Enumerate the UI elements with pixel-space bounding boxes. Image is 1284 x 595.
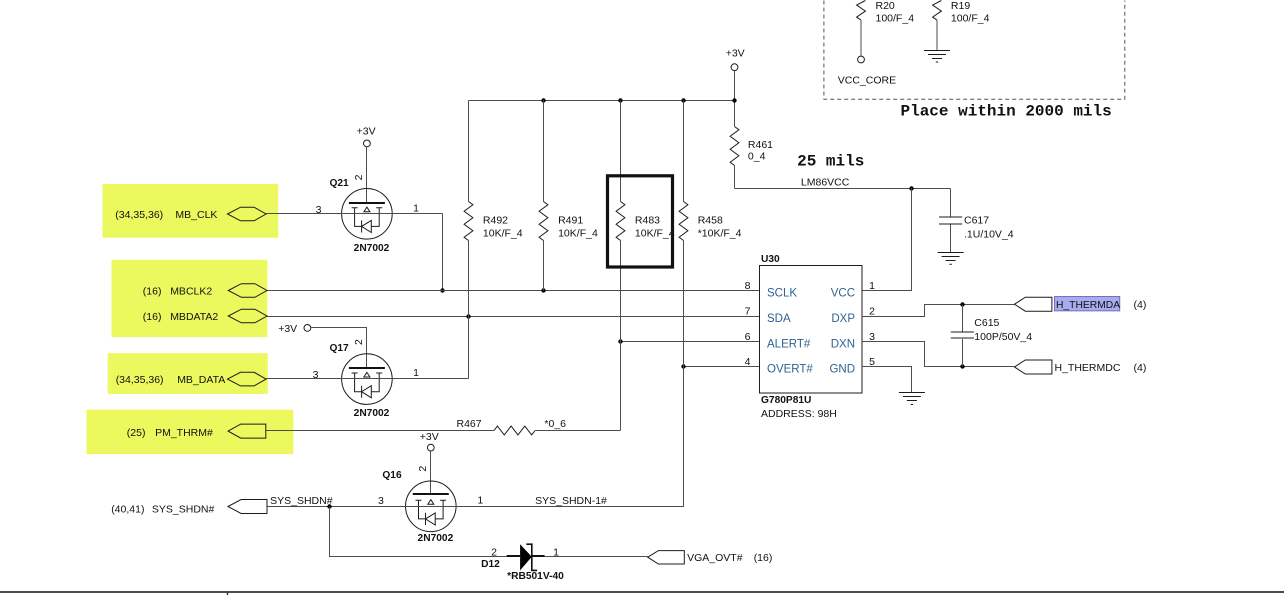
svg-text:2N7002: 2N7002 [354,408,390,419]
IC U30 [760,254,863,420]
ground R19 [924,51,950,63]
wire R492 column [468,101,470,379]
svg-text:10K/F_4: 10K/F_4 [558,228,598,240]
svg-text:(40,41): (40,41) [111,504,144,516]
connector VGA_OVT# [648,551,685,564]
svg-text:R19: R19 [951,0,970,12]
svg-text:1: 1 [477,495,483,507]
wire Q16 drain [430,451,432,495]
svg-text:Q21: Q21 [329,178,349,189]
svg-text:R20: R20 [876,0,895,12]
svg-text:SYS_SHDN#: SYS_SHDN# [270,495,333,507]
wire SYS_SHDN# row [267,506,684,508]
svg-text:10K/F_4: 10K/F_4 [483,228,523,240]
terminal VCC_CORE [858,56,865,63]
svg-text:U30: U30 [761,254,780,265]
svg-text:SCLK: SCLK [767,288,797,300]
junction dot SYS_SHDN# [327,504,331,508]
svg-text:10K/F_4: 10K/F_4 [635,228,675,240]
svg-text:D12: D12 [481,559,500,570]
svg-text:VCC_CORE: VCC_CORE [838,75,896,87]
wire DXP to H_THERMDA [862,305,1015,317]
svg-text:SYS_SHDN#: SYS_SHDN# [152,504,215,516]
svg-text:(16): (16) [143,285,162,297]
svg-text:MB_CLK: MB_CLK [175,209,217,221]
svg-text:SDA: SDA [767,313,791,325]
svg-text:1: 1 [869,280,875,292]
svg-text:100P/50V_4: 100P/50V_4 [974,331,1032,343]
svg-text:R458: R458 [698,215,723,227]
svg-text:(4): (4) [1134,299,1147,311]
junction dot C615 bottom [960,364,964,368]
wire R458 column [683,101,685,507]
svg-text:3: 3 [316,204,322,216]
svg-text:+3V: +3V [357,126,376,138]
resistor R461 [730,127,773,166]
svg-text:.1U/10V_4: .1U/10V_4 [964,228,1014,240]
svg-text:ALERT#: ALERT# [767,339,811,351]
connector PM_THRM# [228,424,266,438]
junction dot ALERT#/R483 [618,339,622,343]
svg-text:(34,35,36): (34,35,36) [116,374,164,386]
highlight box MB_DATA [108,353,268,394]
terminal +3V (Q21) [357,126,376,147]
svg-text:R492: R492 [483,215,508,227]
svg-text:MBCLK2: MBCLK2 [170,285,212,297]
connector H_THERMDC [1015,360,1052,374]
svg-text:GND: GND [829,364,855,376]
wire PM_THRM# row [266,430,621,432]
svg-text:(16): (16) [754,552,773,564]
svg-text:Q17: Q17 [329,343,349,354]
svg-text:(4): (4) [1134,362,1147,374]
wire Q17 drain [311,328,367,368]
wire SCLK row [267,290,760,292]
svg-text:G780P81U: G780P81U [761,395,811,406]
svg-text:Q16: Q16 [382,470,402,481]
resistor R467 [457,418,567,435]
connector MBCLK2 [228,284,267,298]
svg-text:R491: R491 [558,215,583,227]
capacitor C617 [939,189,1014,253]
wire +3V down to bus [734,71,736,127]
resistor R19 [933,0,990,51]
highlight box MB_CLK [103,184,279,238]
resistor R483 [616,202,675,241]
svg-text:*10K/F_4: *10K/F_4 [698,228,742,240]
wire Q21 pin1 down [442,214,444,291]
svg-text:DXP: DXP [831,313,855,325]
transistor Q16 [382,470,456,544]
connector MBDATA2 [228,309,267,323]
svg-text:0_4: 0_4 [748,151,766,163]
svg-text:ADDRESS: 98H: ADDRESS: 98H [761,408,837,420]
resistor R20 [857,0,915,56]
svg-text:LM86VCC: LM86VCC [801,177,850,189]
connector MB_DATA [228,372,267,386]
junction dot SDA/R492 [466,314,470,318]
wire SDA row [267,316,760,318]
svg-text:1: 1 [413,367,419,379]
svg-text:(34,35,36): (34,35,36) [115,209,163,221]
svg-text:2N7002: 2N7002 [418,533,454,544]
wire R483 column [620,101,622,431]
wire R491 column [543,101,545,291]
wire GND pin [862,367,912,393]
resistor R491 [539,202,598,241]
capacitor C615 [951,305,1032,367]
svg-text:R467: R467 [457,418,482,430]
svg-text:2: 2 [353,174,365,180]
svg-text:(16): (16) [143,311,162,323]
svg-text:+3V: +3V [420,431,439,443]
svg-text:4: 4 [745,356,751,368]
wire DXN to H_THERMDC [862,342,1015,367]
svg-text:2: 2 [353,339,365,345]
svg-text:25 mils: 25 mils [797,153,864,171]
svg-text:(25): (25) [127,427,146,439]
connector MB_CLK [228,207,267,221]
svg-text:7: 7 [745,306,751,318]
svg-text:C617: C617 [964,215,989,227]
wire R461 to LM86VCC [734,166,736,189]
svg-text:6: 6 [745,331,751,343]
svg-text:+3V: +3V [278,323,297,335]
terminal +3V (Q16) [420,431,439,451]
svg-text:VGA_OVT#: VGA_OVT# [687,552,743,564]
svg-text:3: 3 [378,495,384,507]
svg-text:*RB501V-40: *RB501V-40 [507,571,564,582]
svg-text:1: 1 [413,203,419,215]
svg-text:H_THERMDA: H_THERMDA [1056,300,1120,311]
highlight box MBCLK2/MBDATA2 [112,260,268,337]
wire ALERT# row [621,341,760,343]
net highlight H_THERMDA [1055,297,1120,311]
junction dot LM86VCC [909,186,913,190]
highlight box PM_THRM# [87,410,294,454]
wire MB_CLK row [266,213,442,215]
junction dot SCLK/R491 [541,288,545,292]
diode D12 [481,544,564,582]
dashed placement boundary box [824,1,1125,100]
svg-text:PM_THRM#: PM_THRM# [155,427,213,439]
svg-text:VCC: VCC [831,288,855,300]
svg-text:MB_DATA: MB_DATA [177,374,225,386]
svg-text:C615: C615 [974,317,999,329]
transistor Q17 [329,343,392,419]
svg-text:DXN: DXN [831,339,855,351]
wire MB_DATA row [266,378,468,380]
bold emphasis box around R483 [608,176,673,267]
svg-text:Place within 2000 mils: Place within 2000 mils [901,102,1112,120]
svg-text:100/F_4: 100/F_4 [876,13,915,25]
wire top bus [469,100,735,102]
wire VCC pin vertical [862,189,912,291]
terminal +3V (R461) [726,47,745,70]
svg-text:8: 8 [745,280,751,292]
terminal +3V (Q17) [278,323,311,335]
svg-text:H_THERMDC: H_THERMDC [1055,362,1121,374]
ground C617 [938,253,964,265]
title block tick [227,593,229,595]
svg-text:2: 2 [869,306,875,318]
svg-text:3: 3 [313,369,319,381]
svg-text:R483: R483 [635,215,660,227]
wire D12 to VGA_OVT# [545,556,648,558]
wire Q21 drain [366,147,368,203]
resistor R458 [679,202,742,241]
wire OVERT# row [684,366,760,368]
junction dots on bus [541,98,545,102]
svg-text:MBDATA2: MBDATA2 [170,311,218,323]
wire LM86VCC [735,188,951,190]
connector SYS_SHDN# [228,500,267,514]
svg-text:100/F_4: 100/F_4 [951,13,990,25]
resistor R492 [464,202,523,241]
connector H_THERMDA [1015,297,1052,311]
junction dot OVERT#/R458 [681,364,685,368]
svg-text:2: 2 [491,547,497,559]
svg-text:OVERT#: OVERT# [767,364,813,376]
svg-text:2N7002: 2N7002 [354,243,390,254]
ground U30 [899,393,925,405]
wire down to D12 row [330,507,507,557]
junction dot C615 top [960,302,964,306]
svg-text:2: 2 [417,466,429,472]
svg-text:SYS_SHDN-1#: SYS_SHDN-1# [535,495,607,507]
transistor Q21 [329,178,392,254]
svg-text:*0_6: *0_6 [544,418,566,430]
svg-text:+3V: +3V [726,47,745,59]
title block border line [0,591,1284,593]
svg-text:R461: R461 [748,139,773,151]
junction dot SCLK/Q21 [440,288,444,292]
